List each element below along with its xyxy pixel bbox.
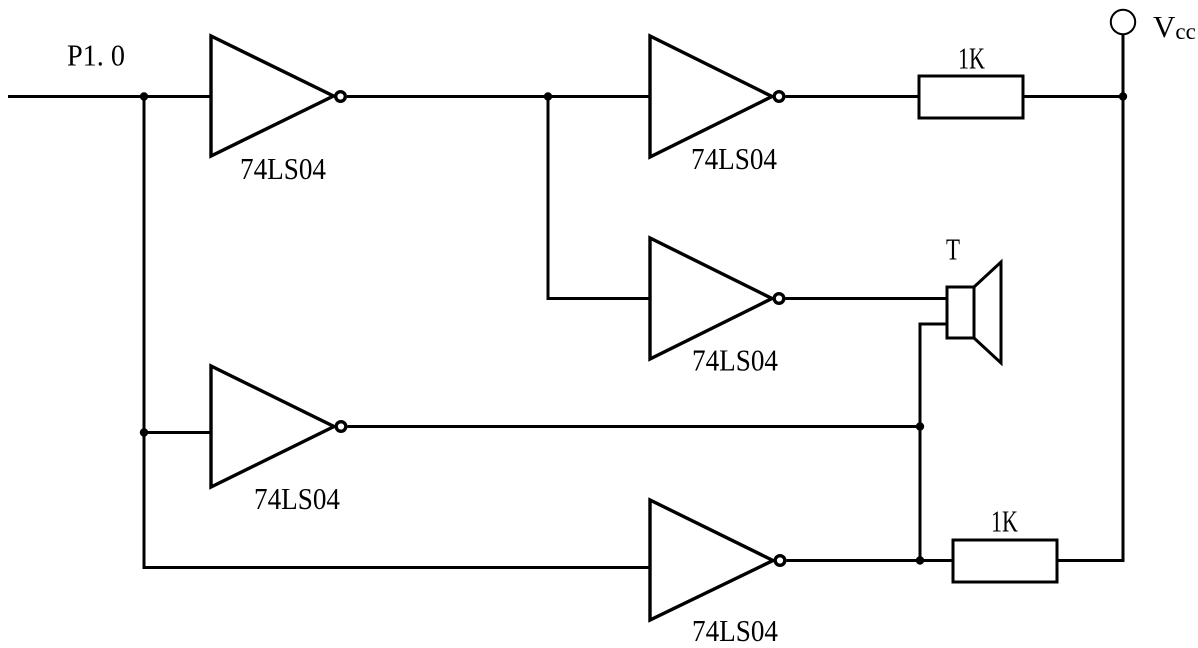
wire input P1.0 horizontal xyxy=(8,95,211,98)
wire U5 output to R2 xyxy=(787,559,954,562)
wire R1 to Vcc rail xyxy=(1023,95,1123,98)
wire R2 to Vcc rail xyxy=(1057,559,1125,562)
op-amp U3 inverter triangle xyxy=(650,238,772,359)
node U4 bubble xyxy=(336,422,346,432)
svg-text:74LS04: 74LS04 xyxy=(240,151,326,186)
wire branch down to U3 xyxy=(548,97,650,299)
svg-text:T: T xyxy=(946,232,960,267)
op-amp U4 inverter triangle xyxy=(211,366,334,487)
node U3 bubble xyxy=(774,294,784,304)
node U5 bubble xyxy=(775,556,785,566)
svg-text:1K: 1K xyxy=(958,41,985,76)
Vcc terminal circle xyxy=(1111,10,1135,34)
svg-text:74LS04: 74LS04 xyxy=(692,613,778,648)
op-amp U1 inverter triangle xyxy=(211,36,334,156)
node rail junction xyxy=(1119,92,1127,100)
node U1 bubble xyxy=(336,92,346,102)
wire Vcc rail vertical xyxy=(1122,35,1125,561)
speaker T horn xyxy=(974,262,1001,363)
svg-text:74LS04: 74LS04 xyxy=(691,141,777,176)
wire speaker lower terminal xyxy=(920,324,947,561)
node left bus to U4 junction xyxy=(140,428,148,436)
op-amp U2 inverter triangle xyxy=(650,36,772,157)
node U2 bubble xyxy=(774,92,784,102)
node mid bus junction xyxy=(916,422,924,430)
node mid junction xyxy=(544,92,552,100)
wire U4 output to mid bus xyxy=(348,425,921,428)
node bottom bus junction xyxy=(916,556,924,564)
svg-text:74LS04: 74LS04 xyxy=(254,481,340,516)
wire left vertical bus xyxy=(144,97,650,568)
svg-text:1K: 1K xyxy=(991,504,1018,539)
wire U1 output to U2 input xyxy=(347,95,650,98)
wire U4 input xyxy=(144,431,211,434)
svg-text:74LS04: 74LS04 xyxy=(692,343,778,378)
wire U2 output to R1 xyxy=(786,95,920,98)
op-amp U5 inverter triangle xyxy=(650,500,773,620)
speaker T body xyxy=(947,287,974,338)
resistor R2 xyxy=(953,540,1057,582)
wire U3 output to speaker xyxy=(786,297,948,300)
resistor R1 xyxy=(919,76,1023,118)
node input junction xyxy=(140,92,148,100)
svg-text:P1. 0: P1. 0 xyxy=(67,38,125,73)
